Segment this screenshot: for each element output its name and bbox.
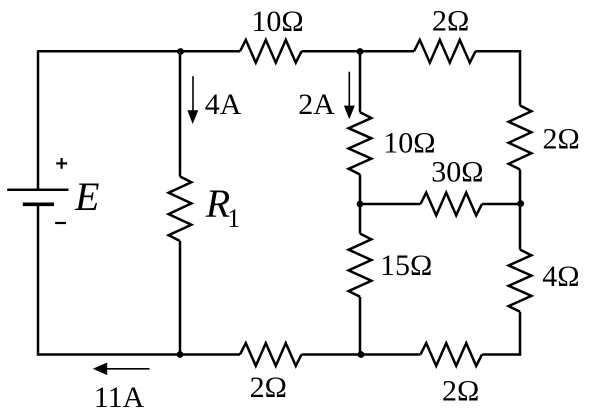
resistor R1 (vertical) <box>169 177 192 242</box>
wire: from 15-ohm down to node B2 <box>359 297 362 355</box>
resistor 10ohm (middle vertical) <box>349 112 372 174</box>
wire: from node M1 down to 15-ohm <box>359 204 362 234</box>
battery minus polarity mark <box>55 222 66 224</box>
wire: right side from node M2 down to 4-ohm <box>519 204 522 250</box>
wire: bottom between node B1 and 2-ohm <box>180 353 240 356</box>
wire: from node T1 down to R1 <box>179 51 182 176</box>
svg-text:4A: 4A <box>205 88 242 121</box>
current arrow 4A (down) <box>187 76 198 124</box>
svg-text:2Ω: 2Ω <box>543 123 580 156</box>
node T2 junction dot <box>357 48 364 55</box>
svg-text:2Ω: 2Ω <box>250 371 287 404</box>
wire: middle from 30-ohm to node M2 <box>482 203 520 206</box>
wire: bottom from bottom-left corner to node B1 <box>38 353 180 356</box>
resistor 2ohm (bottom-right horizontal) <box>421 343 483 366</box>
wire: top-right corner segment <box>476 50 522 53</box>
svg-text:2Ω: 2Ω <box>432 4 469 37</box>
wire: bottom between node B2 and 2-ohm right <box>361 353 421 356</box>
wire: top between node T2 and 2-ohm resistor <box>360 50 414 53</box>
wire: from 10-ohm vertical down to node M1 <box>359 175 362 205</box>
svg-text:11A: 11A <box>94 381 145 414</box>
wire: right side from 4-ohm down to bottom-right corner <box>519 312 522 356</box>
battery E: long positive plate <box>7 189 68 192</box>
resistor 10ohm (top horizontal) <box>240 40 302 63</box>
node M1 junction dot <box>357 201 364 208</box>
wire: from node T2 down to 10-ohm vertical <box>359 51 362 112</box>
node B1 junction dot <box>177 351 184 358</box>
wire: right side from 2-ohm down to node M2 <box>519 170 522 205</box>
node T1 junction dot <box>177 48 184 55</box>
resistor 30ohm (middle horizontal) <box>421 193 483 216</box>
battery plus polarity mark <box>56 162 67 164</box>
svg-text:10Ω: 10Ω <box>383 127 435 160</box>
svg-text:E: E <box>74 174 99 219</box>
wire: left side from battery minus plate down <box>37 204 40 355</box>
resistor 15ohm (middle vertical lower) <box>349 234 372 297</box>
svg-text:10Ω: 10Ω <box>251 5 303 38</box>
node B2 junction dot <box>358 351 365 358</box>
wire: middle from node M1 to 30-ohm <box>360 203 421 206</box>
svg-text:15Ω: 15Ω <box>380 249 432 282</box>
node M2 junction dot <box>517 200 524 207</box>
wire: bottom between 2-ohm and node B2 <box>302 353 362 356</box>
svg-text:2Ω: 2Ω <box>442 375 479 408</box>
svg-text:30Ω: 30Ω <box>431 156 483 189</box>
resistor 2ohm (top-right horizontal) <box>414 40 476 63</box>
resistor 4ohm (right vertical lower) <box>509 250 532 312</box>
svg-text:1: 1 <box>227 204 240 233</box>
current arrow 11A (left) <box>93 363 150 376</box>
svg-text:2A: 2A <box>298 88 335 121</box>
wire: bottom to bottom-right corner <box>482 353 521 356</box>
wire: right side upper, corner down to 2-ohm vertical <box>519 50 522 105</box>
svg-text:4Ω: 4Ω <box>542 260 579 293</box>
resistor 2ohm (right vertical upper) <box>509 106 532 170</box>
current arrow 2A (down) <box>344 72 355 120</box>
battery E: short negative plate <box>23 203 54 207</box>
wire: from R1 down to node B1 <box>179 241 182 355</box>
wire: top between 10-ohm and node T2 <box>302 50 361 53</box>
wire: top between node T1 and 10-ohm resistor <box>181 50 240 53</box>
wire: left side from battery plus plate up <box>37 50 40 188</box>
resistor 2ohm (bottom-left horizontal) <box>240 343 302 366</box>
wire: top-left from battery + up and across to node T1 <box>38 50 181 53</box>
